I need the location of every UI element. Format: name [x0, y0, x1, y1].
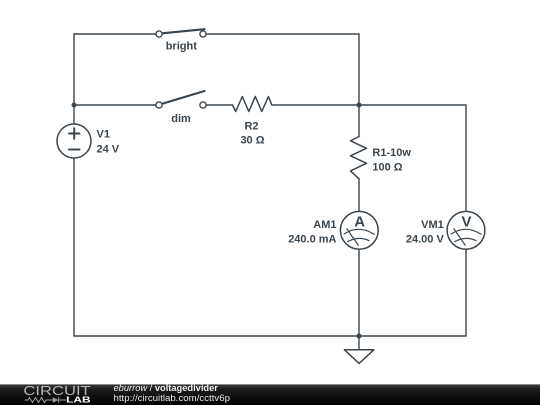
wire node down to R1	[358, 105, 360, 137]
wire left vertical rail	[73, 34, 75, 336]
svg-text:V1: V1	[97, 129, 110, 141]
node junction R2/R1/VM	[357, 103, 362, 108]
wire VM1 bottom to bottom rail	[465, 249, 467, 336]
switch bright terminals	[156, 31, 162, 37]
voltmeter VM1	[447, 211, 485, 249]
wire dim switch to R2	[203, 104, 233, 106]
svg-text:V: V	[461, 214, 471, 231]
svg-text:30 Ω: 30 Ω	[240, 135, 264, 147]
svg-text:24.00 V: 24.00 V	[406, 233, 445, 245]
wire dim branch left segment	[74, 104, 159, 106]
switch dim terminals	[156, 102, 162, 108]
wire node to VM1 branch top	[359, 105, 466, 211]
svg-text:R2: R2	[244, 120, 258, 132]
svg-text:eburrow / voltagedivider: eburrow / voltagedivider	[114, 383, 219, 393]
svg-text:24 V: 24 V	[97, 144, 120, 156]
svg-text:240.0 mA: 240.0 mA	[288, 233, 336, 245]
svg-text:http://circuitlab.com/ccttv6p: http://circuitlab.com/ccttv6p	[114, 393, 231, 403]
switch bright lever	[162, 29, 205, 33]
switch dim lever	[162, 91, 205, 104]
svg-text:dim: dim	[171, 113, 191, 125]
resistor R2	[233, 97, 272, 112]
wire AM1 bottom to ground node	[358, 249, 360, 336]
wire bottom rail	[74, 335, 466, 337]
node junction dim/V1	[72, 103, 77, 108]
ammeter AM1	[340, 211, 378, 249]
svg-text:R1-10w: R1-10w	[372, 147, 411, 159]
resistor R1-10w	[351, 137, 367, 179]
voltage source V1	[57, 124, 91, 158]
node junction ground	[357, 334, 362, 339]
wire top from V1 branch to bright switch	[74, 33, 159, 35]
logo resistor squiggle	[25, 397, 66, 402]
svg-text:AM1: AM1	[313, 219, 336, 231]
svg-text:bright: bright	[166, 41, 197, 53]
wire R2 to node	[272, 104, 359, 106]
ground	[358, 336, 360, 350]
svg-text:LAB: LAB	[66, 394, 91, 404]
svg-text:A: A	[354, 214, 365, 231]
logo diode triangle	[53, 397, 59, 402]
svg-text:VM1: VM1	[421, 219, 444, 231]
wire top from bright switch to right corner and down to node	[203, 34, 359, 105]
footer bar	[0, 384, 540, 405]
svg-text:100 Ω: 100 Ω	[372, 162, 402, 174]
wire R1 to AM1	[358, 179, 360, 211]
